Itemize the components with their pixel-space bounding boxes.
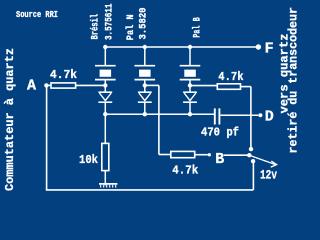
svg-text:Brésil: Brésil xyxy=(90,14,102,40)
junction dot X3-D3 xyxy=(188,83,192,87)
wire A to R1 xyxy=(46,84,51,86)
node B terminal dot xyxy=(208,153,211,156)
svg-text:B: B xyxy=(215,151,224,168)
svg-text:10k: 10k xyxy=(79,153,98,167)
svg-text:470 pf: 470 pf xyxy=(201,127,239,140)
ground xyxy=(99,184,117,188)
junction dot bus col1 xyxy=(103,45,107,49)
resistor R1 xyxy=(51,83,76,88)
junction dot X2-D2 xyxy=(143,83,147,87)
svg-text:Pal N: Pal N xyxy=(125,14,137,40)
node A dot xyxy=(44,83,48,87)
switch S1 wiper arrow to 12v xyxy=(251,156,277,167)
svg-text:3.5820: 3.5820 xyxy=(138,8,150,40)
svg-text:4.7k: 4.7k xyxy=(50,68,77,82)
switch S1 bottom contact dot xyxy=(251,159,255,163)
wire C1 to node D xyxy=(220,114,258,116)
diode D2 xyxy=(138,85,152,114)
wire bus to R3 xyxy=(104,114,106,143)
svg-text:Pal B: Pal B xyxy=(191,17,203,38)
svg-text:D: D xyxy=(265,108,274,125)
resistor R3 (10k vertical) xyxy=(102,143,109,170)
diode D3 xyxy=(183,85,197,114)
wire X2 junction to corner xyxy=(145,84,159,86)
wire R4 to B terminal xyxy=(195,154,208,156)
svg-text:4.7k: 4.7k xyxy=(172,164,198,178)
wire crystal X2 riser xyxy=(144,47,146,66)
crystal X1 (Brésil 3.575611) xyxy=(95,66,116,86)
svg-text:A: A xyxy=(27,78,36,95)
crystal X2 (Pal N 3.5820) xyxy=(135,66,156,86)
svg-text:3.575611: 3.575611 xyxy=(104,4,116,41)
junction dot D2-bus xyxy=(143,112,147,116)
wire R3 to ground xyxy=(104,171,106,186)
switch S1 top contact dot xyxy=(249,147,253,151)
wire X3 junction to R2 xyxy=(190,85,217,87)
diode D1 xyxy=(98,85,112,114)
svg-text:F: F xyxy=(265,41,274,58)
wire diode bus xyxy=(105,113,214,115)
svg-text:Source RRI: Source RRI xyxy=(16,9,58,20)
wire top bus xyxy=(105,46,256,48)
wire corner drop to B row xyxy=(158,85,160,154)
svg-text:retiré du transcodeur: retiré du transcodeur xyxy=(288,7,301,154)
wire R2 to riser xyxy=(241,86,251,88)
node D dot xyxy=(258,113,262,117)
junction dot bus col2 xyxy=(143,45,147,49)
wire B to switch xyxy=(224,154,248,156)
wire riser down to switch top contact xyxy=(250,87,252,148)
svg-text:Commutateur à quartz: Commutateur à quartz xyxy=(3,48,17,191)
wire R1 to X1 junction xyxy=(76,84,106,86)
junction dot node A / X1-D1 xyxy=(103,83,107,87)
switch S1 middle contact dot xyxy=(247,153,251,157)
junction dot D3-bus xyxy=(188,112,192,116)
crystal X3 (Pal B) xyxy=(180,66,201,86)
svg-text:12v: 12v xyxy=(260,169,277,183)
wire B row to R4 xyxy=(159,154,171,156)
wire crystal X1 riser xyxy=(104,47,106,66)
svg-text:4.7k: 4.7k xyxy=(218,70,243,84)
resistor R4 xyxy=(171,151,195,157)
junction dot bus col3 xyxy=(188,45,192,49)
resistor R2 xyxy=(217,84,240,90)
wire bottom rail xyxy=(46,189,254,191)
wire right riser to switch xyxy=(252,161,254,190)
wire crystal X3 riser xyxy=(189,47,191,66)
junction dot D1-bus xyxy=(103,112,107,116)
wire left drop from A xyxy=(46,85,48,189)
capacitor C1 470pf xyxy=(215,108,220,124)
node F dot xyxy=(256,44,261,49)
